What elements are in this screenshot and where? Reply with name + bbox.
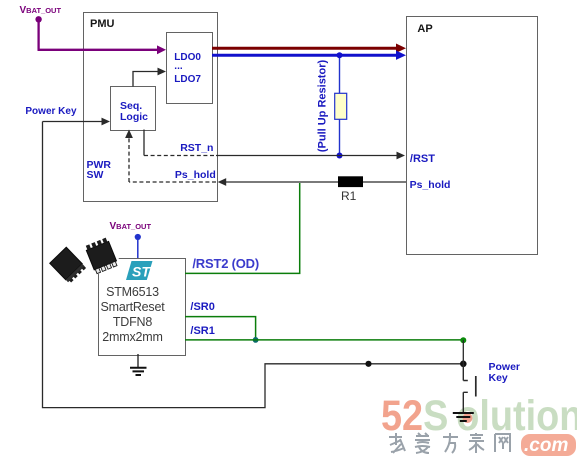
svg-text:ST: ST xyxy=(132,264,151,280)
